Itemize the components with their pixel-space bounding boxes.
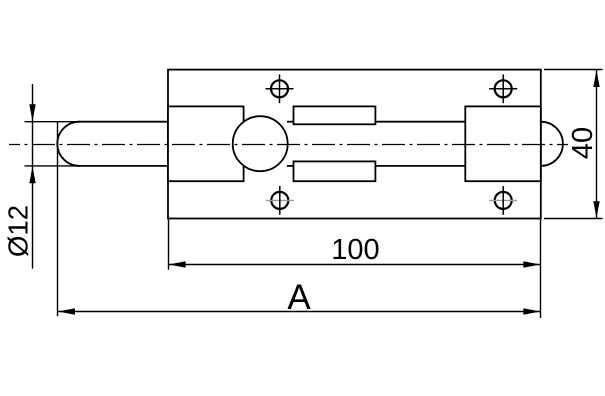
dimension Ø12 line xyxy=(32,84,34,269)
arrow A left xyxy=(58,308,75,314)
svg-text:40: 40 xyxy=(567,127,599,159)
arrow Ø12 bottom xyxy=(29,166,35,183)
extension line top right for 40 xyxy=(544,69,603,71)
arrow 40 top xyxy=(593,70,599,87)
rod bottom edge right segment xyxy=(375,165,465,167)
rod segment between knob and lower strip xyxy=(287,165,294,167)
arrow A right xyxy=(523,308,540,314)
svg-text:Ø12: Ø12 xyxy=(3,205,34,257)
arrow Ø12 top xyxy=(29,104,35,121)
crosshair bottom right hole xyxy=(489,199,517,201)
extension line bottom right for 40 xyxy=(544,218,603,220)
screw hole top right xyxy=(495,80,512,97)
svg-text:A: A xyxy=(287,278,311,317)
bolt rod top edge xyxy=(79,121,169,123)
extension line right shared xyxy=(540,219,542,318)
dimension A line xyxy=(58,311,541,313)
rod top edge right segment xyxy=(375,121,465,123)
left guide block xyxy=(168,106,244,181)
centerline axis xyxy=(9,144,568,146)
dimension 40 line xyxy=(596,70,598,219)
dimension 100 line xyxy=(168,264,540,266)
arrow 100 left xyxy=(169,261,186,267)
upper guide strip xyxy=(294,106,376,124)
right guide block xyxy=(465,106,541,181)
knob circle xyxy=(233,116,288,171)
lower guide strip xyxy=(294,161,376,181)
screw hole top left xyxy=(271,80,288,97)
arrow 40 bottom xyxy=(593,201,599,218)
bolt tip half circle xyxy=(541,122,563,166)
arrow 100 right xyxy=(523,261,540,267)
svg-text:100: 100 xyxy=(331,234,379,266)
bolt rod rounded end cap xyxy=(57,122,79,166)
bolt rod top extension line xyxy=(25,121,81,123)
screw hole bottom left xyxy=(271,192,288,209)
crosshair top right hole xyxy=(489,88,517,90)
crosshair bottom left hole xyxy=(266,199,294,201)
bolt rod bottom extension line xyxy=(25,165,81,167)
screw hole bottom right xyxy=(495,192,512,209)
extension line left for A xyxy=(57,122,59,317)
extension line left for 100 xyxy=(168,219,170,269)
plate body outline xyxy=(168,70,541,219)
rod segment between knob and upper strip xyxy=(287,121,294,123)
crosshair top left hole xyxy=(266,88,294,90)
bolt rod bottom edge xyxy=(79,165,169,167)
